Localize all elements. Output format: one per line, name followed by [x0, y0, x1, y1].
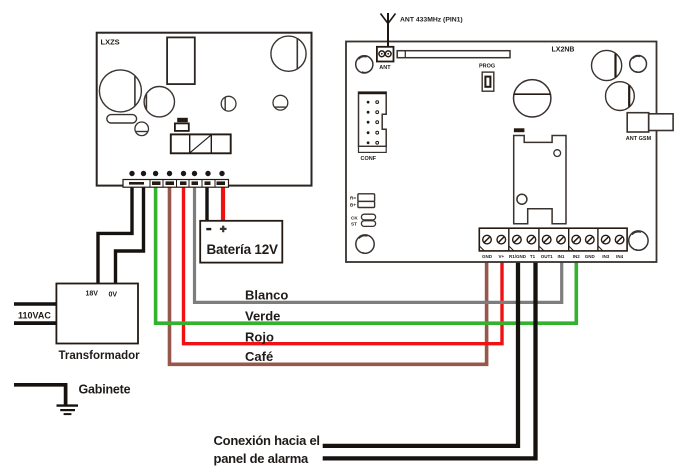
- svg-text:Batería 12V: Batería 12V: [207, 242, 279, 257]
- svg-text:ANT: ANT: [379, 65, 391, 71]
- svg-text:ANT 433MHz (PIN1): ANT 433MHz (PIN1): [400, 17, 463, 24]
- svg-text:Rojo: Rojo: [245, 330, 274, 345]
- terminal pin dots LXZS: [129, 171, 224, 176]
- capacitor C4 small LXZS: [135, 122, 149, 136]
- mounting hole bottom-right LX2NB: [629, 231, 648, 250]
- wire black alarm panel 2: LX2NB T1 to alarm panel: [323, 261, 536, 458]
- mounting hole top-left LX2NB: [356, 56, 373, 73]
- board LX2NB outline: [346, 42, 657, 263]
- wire 110VAC line 2: [14, 321, 56, 325]
- jumper labels R= B+: [350, 194, 375, 208]
- GSM module U1 outline: [514, 136, 566, 224]
- wire W7 black battery minus: [205, 186, 208, 222]
- capacitor C6 right LXZS: [273, 95, 288, 110]
- svg-text:GND: GND: [585, 254, 596, 259]
- svg-text:panel de alarma: panel de alarma: [214, 451, 310, 466]
- wire brown Cafe: LXZS terminal 4 to LX2NB GND: [170, 186, 487, 364]
- svg-text:ST: ST: [351, 222, 357, 227]
- svg-text:LXZS: LXZS: [101, 38, 120, 47]
- mounting hole top-right LX2NB: [630, 56, 647, 73]
- wire gabinete ground: [14, 385, 66, 405]
- LED ST: [351, 221, 376, 227]
- svg-text:Café: Café: [245, 349, 273, 364]
- svg-text:IN1: IN1: [557, 254, 565, 259]
- terminal strip LX2NB: [479, 228, 627, 251]
- svg-text:IN3: IN3: [602, 254, 610, 259]
- button PROG: [482, 72, 494, 91]
- svg-text:Verde: Verde: [245, 309, 280, 324]
- svg-text:R1/GND: R1/GND: [509, 254, 527, 259]
- svg-text:CK: CK: [351, 215, 358, 220]
- wire 110VAC line 1: [14, 302, 56, 306]
- LED CK: [351, 214, 376, 220]
- capacitor C3 LXZS: [144, 87, 174, 117]
- svg-text:GND: GND: [482, 254, 493, 259]
- capacitor C8 top-right LX2NB: [592, 50, 622, 80]
- svg-text:0V: 0V: [109, 292, 118, 299]
- PCB trace antenna bar: [397, 51, 510, 58]
- wire gray Blanco: LXZS terminal 6 to LX2NB IN1: [195, 186, 562, 302]
- terminal screw slots LX2NB: [484, 237, 622, 242]
- connector ANT GSM: [626, 113, 673, 142]
- wire red Rojo: LXZS terminal 5 to LX2NB V+: [184, 186, 503, 344]
- ground symbol: [57, 406, 79, 415]
- jumper JP1 label blob: [175, 118, 189, 131]
- terminal labels LX2NB: [482, 254, 624, 259]
- svg-text:OUT1: OUT1: [541, 254, 553, 259]
- wire W8 red battery plus: [221, 186, 225, 222]
- svg-text:B+: B+: [350, 203, 356, 208]
- svg-text:110VAC: 110VAC: [18, 311, 51, 321]
- label IGM tiny: [514, 128, 525, 132]
- svg-text:Gabinete: Gabinete: [79, 382, 131, 396]
- svg-text:PROG: PROG: [479, 64, 495, 70]
- svg-text:LX2NB: LX2NB: [552, 47, 575, 54]
- wire black alarm panel 1: LX2NB R1/GND to alarm panel: [323, 261, 518, 446]
- svg-text:IN4: IN4: [616, 254, 624, 259]
- component stadium LXZS: [107, 115, 137, 123]
- wire W1 black 18V: LXZS terminal 1 to transformer 18V: [98, 186, 132, 284]
- svg-text:Blanco: Blanco: [245, 288, 288, 303]
- svg-text:Conexión hacia el: Conexión hacia el: [214, 433, 320, 448]
- wire green Verde: LXZS terminal 3 to LX2NB IN2: [156, 186, 577, 323]
- capacitor C7 large LX2NB: [514, 80, 551, 117]
- svg-text:IN2: IN2: [573, 254, 581, 259]
- connector CONF: [359, 92, 387, 162]
- svg-text:CONF: CONF: [361, 156, 377, 162]
- terminal screws LX2NB: [483, 235, 624, 244]
- capacitor C5 mid LXZS: [221, 96, 236, 111]
- transformer T1 on LXZS board: [167, 37, 195, 84]
- capacitor C2 large left LXZS: [99, 70, 141, 112]
- wire W2 black 0V: LXZS terminal 2 to transformer 0V: [116, 186, 144, 284]
- mounting hole bottom-left LX2NB: [356, 235, 374, 253]
- svg-text:Transformador: Transformador: [59, 350, 141, 362]
- antenna whip ANT 433MHz: [381, 13, 396, 47]
- capacitor C1 top-right LXZS: [271, 36, 306, 71]
- svg-text:18V: 18V: [86, 291, 99, 298]
- board LXZS outline: [97, 33, 312, 186]
- capacitor C9 right LX2NB: [606, 82, 635, 111]
- relay K1 LXZS: [171, 134, 231, 153]
- svg-text:R=: R=: [350, 196, 356, 201]
- connector ANT terminal block: [377, 47, 394, 71]
- battery 12V box: [200, 221, 282, 263]
- svg-text:V+: V+: [498, 254, 504, 259]
- terminal strip LXZS: [123, 180, 229, 188]
- transformer box: [56, 284, 138, 344]
- svg-text:ANT GSM: ANT GSM: [626, 136, 652, 142]
- label Conexion hacia el panel de alarma: [214, 433, 320, 466]
- svg-text:T1: T1: [530, 254, 536, 259]
